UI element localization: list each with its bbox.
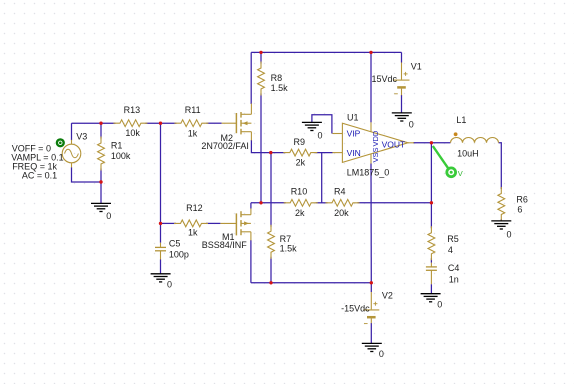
capacitor C5: [160, 243, 162, 248]
resistor R5: [428, 226, 435, 260]
svg-text:R9: R9: [294, 137, 306, 147]
transistor M1: [235, 213, 237, 235]
wire V1 top: [401, 52, 403, 62]
wire R1 bottom: [100, 169, 102, 183]
resistor R10: [284, 199, 318, 206]
wire U1 VSS supply: [370, 163, 372, 282]
svg-text:V1: V1: [411, 62, 422, 72]
junction: [269, 151, 272, 154]
svg-text:U1: U1: [347, 112, 359, 122]
wire node B vertical: [160, 123, 162, 223]
wire V3 node to ground: [100, 182, 102, 203]
svg-text:15Vdc: 15Vdc: [372, 74, 398, 84]
svg-text:2N7002/FAI: 2N7002/FAI: [201, 141, 249, 151]
wire R10-R4 segment: [316, 202, 328, 204]
junction: [99, 180, 102, 183]
ground: [151, 273, 171, 275]
resistor R8: [258, 62, 265, 96]
resistor R13: [113, 120, 147, 127]
wire C5 top: [160, 223, 162, 242]
resistor R11: [174, 120, 208, 127]
svg-text:R6: R6: [516, 194, 528, 204]
wire R13-R11 segment: [145, 122, 176, 124]
wire C5 bottom: [160, 260, 162, 274]
svg-text:R5: R5: [447, 234, 459, 244]
svg-text:VDD: VDD: [371, 130, 380, 146]
transistor M2: [235, 113, 237, 133]
wire VIP ground hook: [312, 115, 332, 134]
wire M1 drain up: [250, 203, 252, 209]
wire R7 top: [270, 153, 272, 227]
wire R6 bottom: [500, 219, 502, 221]
capacitor C4: [430, 263, 432, 267]
junction: [369, 51, 372, 54]
svg-text:AC = 0.1: AC = 0.1: [22, 170, 57, 180]
svg-text:20k: 20k: [334, 208, 349, 218]
wire R7 bottom: [270, 257, 272, 283]
wire feedback vertical: [430, 143, 432, 229]
svg-text:1.5k: 1.5k: [280, 243, 298, 253]
wire node D row: [251, 202, 286, 204]
svg-text:2k: 2k: [296, 157, 306, 167]
svg-text:1k: 1k: [188, 228, 198, 238]
voltage probe: [433, 146, 449, 169]
wire M2 drain: [250, 52, 252, 104]
wire R9 right to VIN: [315, 152, 332, 154]
resistor R1: [98, 137, 105, 171]
svg-text:0: 0: [379, 349, 384, 359]
svg-text:V: V: [458, 169, 463, 178]
V3 net marker: [57, 139, 64, 146]
resistor R6: [498, 187, 505, 221]
wire VOUT to L1: [413, 142, 451, 144]
junction: [430, 141, 433, 144]
svg-text:0: 0: [318, 130, 323, 140]
voltage source V2: [370, 292, 372, 309]
resistor R4: [326, 199, 360, 206]
svg-text:10uH: 10uH: [457, 148, 479, 158]
junction: [269, 281, 272, 284]
ground: [362, 342, 382, 344]
wire VIN node down: [321, 153, 323, 203]
junction: [159, 222, 162, 225]
svg-text:1.5k: 1.5k: [271, 83, 289, 93]
ground: [392, 112, 412, 114]
ground: [302, 121, 322, 123]
svg-text:10k: 10k: [125, 128, 140, 138]
wire L1 to R6: [499, 143, 502, 189]
svg-text:R13: R13: [124, 105, 141, 115]
svg-text:C4: C4: [448, 263, 460, 273]
wire R11 to M2 gate: [206, 122, 221, 124]
wire top rail: [251, 51, 401, 53]
wire R5 to C4: [430, 258, 432, 262]
svg-text:0: 0: [437, 300, 442, 310]
inductor L1: [451, 138, 499, 143]
junction: [430, 201, 433, 204]
svg-text:VIP: VIP: [347, 129, 361, 139]
svg-text:0: 0: [167, 279, 172, 289]
svg-text:VIN: VIN: [347, 148, 361, 158]
svg-text:R8: R8: [271, 73, 283, 83]
svg-text:-15Vdc: -15Vdc: [341, 304, 370, 314]
svg-text:BSS84/INF: BSS84/INF: [202, 240, 248, 250]
ground: [491, 220, 511, 222]
svg-text:100p: 100p: [169, 250, 189, 260]
wire V2 bottom: [370, 323, 372, 343]
svg-text:R11: R11: [185, 105, 201, 115]
wire R4 to feedback node: [358, 202, 432, 204]
junction: [159, 122, 162, 125]
ground: [421, 293, 441, 295]
svg-text:L1: L1: [456, 115, 466, 125]
svg-text:V2: V2: [382, 291, 393, 301]
resistor R12: [174, 220, 208, 227]
svg-text:0: 0: [409, 120, 414, 130]
wire R12 left: [161, 222, 177, 224]
svg-text:V3: V3: [76, 131, 87, 141]
svg-text:R4: R4: [334, 187, 346, 197]
wire R8 bottom: [260, 94, 262, 203]
svg-text:1n: 1n: [449, 274, 459, 284]
wire R1 top: [100, 123, 102, 138]
ground: [91, 202, 111, 204]
junction: [99, 122, 102, 125]
junction: [370, 281, 373, 284]
resistor R7: [268, 225, 275, 259]
svg-text:4: 4: [448, 245, 453, 255]
svg-text:2k: 2k: [295, 208, 305, 218]
wire bottom rail: [251, 282, 371, 284]
svg-text:1k: 1k: [188, 129, 198, 139]
wire M1 source down: [250, 240, 252, 283]
voltage source V3: [62, 144, 81, 163]
wire M2 source down: [251, 140, 285, 153]
voltage source V1: [401, 63, 403, 80]
wire V2 top: [370, 283, 372, 292]
wire R12 to M1 gate: [206, 222, 220, 224]
svg-text:0: 0: [106, 211, 111, 221]
svg-text:100k: 100k: [111, 151, 131, 161]
junction: [259, 201, 262, 204]
svg-text:VOUT: VOUT: [382, 139, 406, 149]
svg-text:0: 0: [507, 230, 512, 240]
wire C4 to ground: [430, 284, 432, 294]
wire U1 VDD supply: [370, 52, 372, 122]
svg-text:C5: C5: [169, 239, 181, 249]
junction: [259, 51, 262, 54]
wire V3 bottom lead: [72, 167, 102, 182]
wire V3 top lead: [71, 123, 73, 140]
svg-text:VSS: VSS: [371, 147, 380, 162]
svg-text:6: 6: [517, 205, 522, 215]
wire R8 top: [260, 52, 262, 63]
op-amp U1: [342, 123, 408, 162]
resistor R9: [283, 149, 317, 156]
svg-text:LM1875_0: LM1875_0: [347, 167, 390, 177]
wire top input row: [72, 122, 116, 124]
svg-text:R12: R12: [186, 203, 203, 213]
svg-text:R1: R1: [111, 141, 123, 151]
wire V1 bottom: [401, 95, 403, 113]
svg-text:R10: R10: [291, 187, 308, 197]
